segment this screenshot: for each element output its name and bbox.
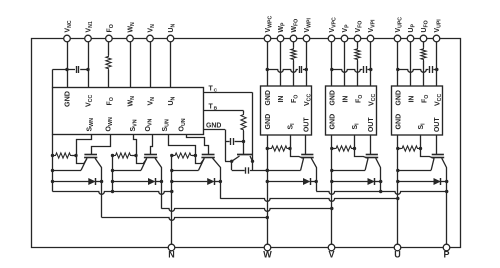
- svg-text:GND: GND: [206, 123, 221, 130]
- svg-text:W: W: [263, 250, 272, 260]
- svg-text:N: N: [168, 250, 175, 260]
- svg-text:GND: GND: [63, 91, 72, 107]
- svg-text:GND: GND: [330, 90, 337, 105]
- svg-text:IN: IN: [278, 96, 285, 103]
- svg-text:P: P: [443, 250, 449, 260]
- svg-text:GND: GND: [395, 114, 403, 130]
- svg-text:OUT: OUT: [434, 117, 441, 132]
- svg-text:V: V: [328, 250, 334, 260]
- svg-text:OUT: OUT: [304, 117, 311, 132]
- svg-text:IN: IN: [343, 96, 350, 103]
- svg-text:OUT: OUT: [368, 117, 375, 132]
- svg-text:U: U: [394, 250, 401, 260]
- svg-text:GND: GND: [329, 114, 337, 130]
- svg-text:IN: IN: [409, 96, 416, 103]
- svg-text:GND: GND: [265, 90, 272, 105]
- svg-text:GND: GND: [396, 90, 403, 105]
- svg-text:GND: GND: [264, 114, 272, 130]
